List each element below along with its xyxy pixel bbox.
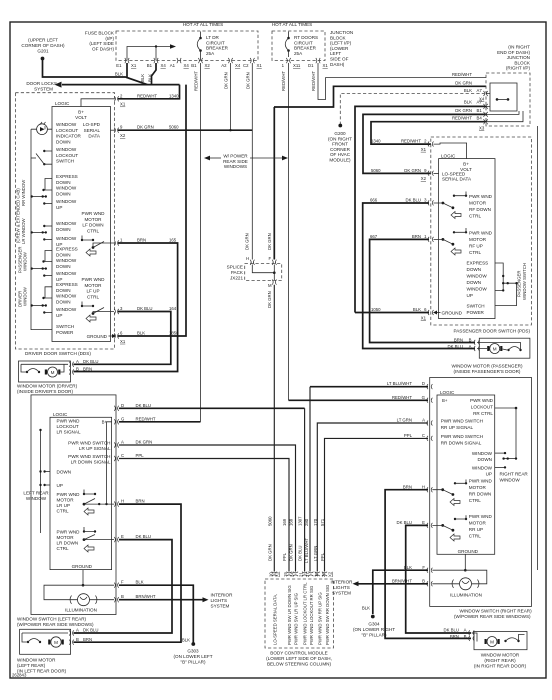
- svg-text:UP: UP: [56, 205, 62, 210]
- svg-text:RF DOWN: RF DOWN: [469, 207, 491, 212]
- svg-text:PWR WND: PWR WND: [82, 277, 106, 282]
- PDS pin 9 lo-speed serial data: [428, 171, 434, 176]
- svg-text:WINDOW SWITCH: WINDOW SWITCH: [522, 263, 527, 300]
- svg-text:M: M: [490, 640, 494, 645]
- svg-text:INTERIOR: INTERIOR: [211, 593, 234, 598]
- svg-text:SYSTEM: SYSTEM: [211, 604, 230, 609]
- svg-text:X2: X2: [421, 176, 427, 181]
- svg-text:WINDOW: WINDOW: [56, 294, 77, 299]
- arrow to door locks system: [55, 82, 62, 88]
- svg-text:RED/WHT: RED/WHT: [136, 416, 156, 421]
- window motor right rear box: [472, 632, 528, 650]
- svg-text:DK GRN: DK GRN: [267, 233, 272, 250]
- svg-text:F: F: [422, 565, 425, 570]
- svg-text:BRN: BRN: [403, 484, 412, 489]
- svg-text:WINDOW: WINDOW: [22, 251, 27, 271]
- svg-text:WINDOW: WINDOW: [56, 186, 77, 191]
- svg-text:RR DOWN SIGNAL: RR DOWN SIGNAL: [441, 440, 482, 445]
- svg-text:DASH): DASH): [330, 62, 345, 67]
- svg-text:LOGIC: LOGIC: [53, 412, 68, 417]
- svg-text:DOWN: DOWN: [467, 267, 482, 272]
- svg-text:B+: B+: [463, 162, 469, 167]
- svg-text:24: 24: [290, 572, 295, 577]
- svg-text:BRN: BRN: [83, 637, 92, 642]
- svg-text:PWR WND SW RR DOWN SIG: PWR WND SW RR DOWN SIG: [325, 584, 330, 645]
- svg-text:DOWN: DOWN: [56, 288, 71, 293]
- svg-text:A: A: [76, 628, 79, 633]
- wire BRN 667 to passenger motor: [370, 239, 475, 342]
- svg-text:D: D: [422, 381, 425, 386]
- svg-text:PWR WND: PWR WND: [469, 478, 493, 483]
- DDS pwr wnd motor lf down ctrl: [82, 211, 106, 233]
- svg-text:DOWN: DOWN: [56, 180, 71, 185]
- svg-text:F: F: [268, 256, 271, 261]
- svg-text:PASSENGER DOOR SWITCH (PDS): PASSENGER DOOR SWITCH (PDS): [454, 329, 531, 334]
- svg-text:DK GRN: DK GRN: [289, 544, 294, 561]
- svg-text:RED/WHT: RED/WHT: [281, 71, 286, 91]
- ground bus / door locks feed: [62, 84, 180, 86]
- svg-text:A: A: [76, 359, 79, 364]
- DDS RR window group: [56, 174, 78, 196]
- svg-text:WINDOW: WINDOW: [56, 271, 77, 276]
- svg-text:X1: X1: [120, 339, 126, 344]
- junction block left I/P label: [330, 30, 353, 67]
- svg-text:X4: X4: [161, 63, 167, 68]
- svg-text:X2: X2: [120, 133, 126, 138]
- svg-text:PWR WND: PWR WND: [57, 492, 81, 497]
- svg-text:JUNCTION: JUNCTION: [507, 55, 530, 60]
- wire DK GRN 5060 from pin 9: [118, 129, 252, 131]
- svg-text:DK GRN: DK GRN: [455, 81, 472, 86]
- svg-text:PWR WND: PWR WND: [469, 230, 493, 235]
- svg-text:CTRL: CTRL: [469, 213, 481, 218]
- svg-text:CTRL: CTRL: [469, 250, 481, 255]
- svg-text:C2: C2: [243, 63, 249, 68]
- svg-text:(LOWER LEFT SIDE OF DASH,: (LOWER LEFT SIDE OF DASH,: [266, 656, 332, 661]
- svg-text:WINDOW: WINDOW: [56, 199, 77, 204]
- svg-text:LO-SPEED: LO-SPEED: [442, 171, 466, 176]
- svg-text:DK BLU: DK BLU: [447, 344, 463, 349]
- svg-text:666: 666: [370, 198, 378, 203]
- svg-text:DOWN: DOWN: [56, 252, 71, 257]
- svg-text:X2: X2: [327, 571, 332, 577]
- LR motor up ctrl: [57, 492, 81, 514]
- svg-text:5060: 5060: [371, 168, 381, 173]
- svg-text:SWITCH: SWITCH: [56, 324, 74, 329]
- svg-text:BLK: BLK: [147, 74, 152, 82]
- svg-text:DK BLU: DK BLU: [443, 628, 459, 633]
- svg-text:X3: X3: [479, 126, 485, 131]
- svg-text:DK BLU: DK BLU: [298, 545, 303, 561]
- svg-text:BLK: BLK: [137, 331, 145, 336]
- svg-text:LT GRN: LT GRN: [397, 418, 412, 423]
- RR window down/up contacts: [472, 451, 493, 462]
- svg-text:HOT AT ALL TIMES: HOT AT ALL TIMES: [272, 22, 312, 27]
- svg-text:EXPRESS: EXPRESS: [467, 261, 489, 266]
- svg-text:BODY CONTROL MODULE: BODY CONTROL MODULE: [270, 651, 327, 656]
- svg-text:H: H: [422, 484, 425, 489]
- svg-text:DATA: DATA: [88, 134, 101, 139]
- LR switch pin B BRN/WHT: [114, 597, 118, 602]
- svg-text:X4: X4: [235, 63, 241, 68]
- wire RED/WHT from breaker pin 1 down right side: [288, 63, 290, 400]
- svg-text:X1: X1: [323, 63, 329, 68]
- svg-text:(LEFT REAR): (LEFT REAR): [17, 663, 46, 668]
- svg-text:RR UP: RR UP: [469, 527, 483, 532]
- LF down contact: [81, 239, 83, 241]
- svg-text:1307: 1307: [298, 516, 303, 526]
- svg-text:CTRL: CTRL: [469, 498, 481, 503]
- svg-text:WINDOW: WINDOW: [56, 147, 77, 152]
- DDS lo-spd serial data + pin 9: [83, 122, 101, 139]
- DDS driver window group: [56, 282, 78, 304]
- svg-text:BRN: BRN: [450, 634, 459, 639]
- svg-text:BLK: BLK: [115, 72, 123, 77]
- RR motor up ctrl: [469, 514, 493, 539]
- far right vertical wire: [537, 126, 539, 570]
- svg-text:POWER: POWER: [467, 310, 485, 315]
- fuse block I/P label: [85, 31, 115, 52]
- svg-text:WINDOW: WINDOW: [26, 496, 47, 501]
- DDS window lockout switch: [56, 147, 78, 164]
- svg-text:B: B: [121, 594, 124, 599]
- svg-text:X1: X1: [421, 315, 427, 320]
- svg-text:DK GRN: DK GRN: [267, 291, 272, 308]
- wire BLK dashed to G200: [340, 94, 484, 125]
- svg-text:"B" PILLAR): "B" PILLAR): [181, 660, 206, 665]
- svg-text:DK GRN: DK GRN: [224, 72, 229, 89]
- svg-text:RED/WHT: RED/WHT: [452, 116, 472, 121]
- svg-text:A2: A2: [221, 63, 227, 68]
- svg-text:ILLUMINATION: ILLUMINATION: [450, 592, 482, 597]
- svg-text:5060: 5060: [267, 516, 272, 526]
- svg-text:W/ POWER: W/ POWER: [223, 154, 248, 159]
- window switch right rear box: [430, 378, 532, 607]
- svg-text:M: M: [268, 283, 272, 288]
- RR motor down ctrl: [469, 478, 493, 503]
- svg-text:MOTOR: MOTOR: [57, 497, 75, 502]
- RR illumination: [432, 570, 486, 584]
- svg-text:1340: 1340: [169, 93, 179, 98]
- wire DK GRN splice M down to BCM: [273, 285, 275, 572]
- svg-text:M: M: [54, 640, 58, 645]
- svg-text:JUNCTION: JUNCTION: [330, 30, 353, 35]
- svg-text:BLK: BLK: [464, 88, 472, 93]
- svg-text:RT DOORS: RT DOORS: [294, 35, 318, 40]
- svg-text:BLK: BLK: [182, 638, 190, 643]
- svg-text:LR SIGNAL: LR SIGNAL: [57, 429, 81, 434]
- svg-text:D1: D1: [308, 63, 314, 68]
- svg-text:BRN/WHT: BRN/WHT: [136, 594, 156, 599]
- svg-text:SERIAL DATA: SERIAL DATA: [442, 177, 472, 182]
- PDS logic box: [439, 159, 495, 319]
- body control module BCM: [265, 579, 334, 648]
- svg-text:PWR WND: PWR WND: [470, 398, 494, 403]
- RR lockout text: [470, 398, 494, 416]
- svg-text:INDICATOR: INDICATOR: [56, 134, 82, 139]
- DDS text window lockout indicator: [56, 122, 82, 144]
- svg-text:A: A: [422, 418, 425, 423]
- svg-text:SPLICE: SPLICE: [227, 265, 243, 270]
- svg-text:25A: 25A: [206, 51, 215, 56]
- svg-text:168: 168: [289, 518, 294, 526]
- svg-text:DOWN: DOWN: [467, 280, 482, 285]
- svg-text:WINDOW: WINDOW: [56, 122, 77, 127]
- wire BLK from G201 to ground bus: [43, 59, 148, 85]
- svg-text:B: B: [76, 637, 79, 642]
- svg-text:MOTOR: MOTOR: [84, 283, 102, 288]
- svg-text:BRN: BRN: [412, 234, 421, 239]
- lockout switch contact: [43, 150, 45, 152]
- svg-text:CIRCUIT: CIRCUIT: [206, 40, 225, 45]
- svg-text:PPL: PPL: [136, 453, 145, 458]
- fuse block pins E1 B1 A1 X2 A2 C2: [125, 58, 255, 63]
- LF up contact: [81, 305, 83, 307]
- svg-text:26: 26: [321, 572, 326, 577]
- svg-text:CTRL: CTRL: [57, 546, 69, 551]
- svg-text:BLK: BLK: [362, 606, 370, 611]
- svg-text:MOTOR: MOTOR: [469, 237, 487, 242]
- svg-text:LOGIC: LOGIC: [55, 101, 70, 106]
- svg-text:DK GRN: DK GRN: [404, 168, 421, 173]
- svg-text:(ON LOWER RIGHT: (ON LOWER RIGHT: [353, 627, 395, 632]
- svg-text:BRN: BRN: [136, 499, 145, 504]
- svg-text:PWR WND SW RR UP SIG: PWR WND SW RR UP SIG: [318, 592, 323, 645]
- svg-text:E: E: [121, 534, 124, 539]
- svg-text:PWR WND SWITCH: PWR WND SWITCH: [68, 454, 110, 459]
- PDS pin 3: [428, 200, 434, 205]
- svg-text:CORNER: CORNER: [330, 147, 351, 152]
- svg-text:D: D: [121, 403, 124, 408]
- wire RED/WHT from D1 to top bus: [318, 63, 486, 100]
- svg-text:B1: B1: [191, 63, 197, 68]
- wire DK GRN from C2 down to splice H: [251, 63, 253, 260]
- RR switch pin D LT BLU/WHT: [427, 384, 433, 389]
- window motor passenger box: [477, 338, 530, 358]
- svg-text:(RIGHT REAR): (RIGHT REAR): [484, 658, 516, 663]
- fuse block internal bus: [127, 47, 170, 61]
- svg-text:262843: 262843: [12, 673, 27, 678]
- svg-text:PACK: PACK: [231, 270, 244, 275]
- svg-text:(LEFT SIDE: (LEFT SIDE: [89, 41, 114, 46]
- window motor driver box: [19, 361, 71, 382]
- svg-text:CORNER OF DASH): CORNER OF DASH): [21, 43, 65, 48]
- svg-text:(W/POWER REAR SIDE WINDOWS): (W/POWER REAR SIDE WINDOWS): [454, 614, 531, 619]
- svg-text:M: M: [493, 347, 497, 352]
- svg-text:PWR WND SW LR UP SIG: PWR WND SW LR UP SIG: [294, 592, 299, 645]
- svg-text:DK BLU: DK BLU: [396, 520, 412, 525]
- svg-text:CIRCUIT: CIRCUIT: [294, 40, 313, 45]
- svg-text:GROUND: GROUND: [87, 334, 108, 339]
- svg-text:WINDOW: WINDOW: [56, 307, 77, 312]
- svg-text:RED/WHT: RED/WHT: [392, 395, 412, 400]
- svg-text:PWR WND: PWR WND: [82, 211, 106, 216]
- BCM wire color labels rotated: [267, 537, 325, 563]
- svg-text:DRIVER DOOR SWITCH (DDS): DRIVER DOOR SWITCH (DDS): [25, 351, 91, 356]
- svg-text:LT DR: LT DR: [206, 35, 220, 40]
- DDS pin 2 X1: [114, 96, 118, 101]
- svg-text:WINDOW: WINDOW: [472, 451, 493, 456]
- svg-text:(ON LOWER LEFT: (ON LOWER LEFT: [173, 654, 212, 659]
- svg-text:MOTOR: MOTOR: [84, 217, 102, 222]
- svg-text:WINDOW MOTOR: WINDOW MOTOR: [17, 658, 56, 663]
- svg-text:(ON RIGHT: (ON RIGHT: [328, 136, 352, 141]
- wire BLK 1050 (riser drawn above): [355, 312, 429, 314]
- svg-text:A7: A7: [477, 88, 483, 93]
- svg-text:G200: G200: [334, 131, 346, 136]
- svg-text:BELOW STEERING COLUMN): BELOW STEERING COLUMN): [267, 662, 332, 667]
- svg-text:LR UP: LR UP: [57, 503, 71, 508]
- wire RED/WHT 1340 from bus to DDS pin 2: [118, 85, 180, 99]
- svg-text:RR WINDOW: RR WINDOW: [21, 179, 26, 206]
- svg-text:B+: B+: [442, 398, 448, 403]
- svg-text:X1: X1: [421, 147, 427, 152]
- wire BLK fuse pin E1 drop: [126, 63, 128, 78]
- svg-text:DK BLU: DK BLU: [405, 198, 421, 203]
- svg-text:A: A: [121, 440, 124, 445]
- svg-text:X4: X4: [479, 97, 485, 102]
- svg-text:DOWN: DOWN: [56, 227, 71, 232]
- passenger door switch PDS dashed box: [431, 137, 532, 325]
- svg-text:OF HVAC: OF HVAC: [330, 152, 351, 157]
- svg-text:B: B: [76, 367, 79, 372]
- svg-text:LIGHTS: LIGHTS: [211, 598, 228, 603]
- svg-text:LO-SPEED SERIAL DATA,: LO-SPEED SERIAL DATA,: [273, 594, 278, 645]
- svg-text:B: B: [464, 634, 467, 639]
- svg-text:LF DOWN: LF DOWN: [82, 223, 103, 228]
- DDS switch power: [56, 324, 74, 335]
- svg-text:LR DOWN SIGNAL: LR DOWN SIGNAL: [71, 460, 111, 465]
- svg-text:PWR WND LOCKOUT RR SIG: PWR WND LOCKOUT RR SIG: [309, 585, 314, 645]
- svg-text:X1: X1: [257, 63, 263, 68]
- svg-text:LOGIC: LOGIC: [440, 390, 455, 395]
- junction block right I/P: [479, 45, 531, 131]
- svg-text:PASSENGER: PASSENGER: [517, 271, 522, 297]
- svg-text:"B" PILLAR): "B" PILLAR): [362, 633, 387, 638]
- DDS LR window group: [56, 221, 77, 232]
- svg-text:PWR WND SWITCH: PWR WND SWITCH: [68, 441, 110, 446]
- svg-text:WINDOW MOTOR (DRIVER): WINDOW MOTOR (DRIVER): [17, 384, 78, 389]
- svg-text:WINDOW: WINDOW: [472, 466, 493, 471]
- svg-text:WINDOW: WINDOW: [500, 478, 521, 483]
- svg-text:A1: A1: [170, 63, 176, 68]
- RR switch pin C PPL: [427, 436, 433, 441]
- svg-text:H: H: [121, 499, 124, 504]
- LR switch pin A DK GRN: [68, 441, 111, 452]
- svg-text:VOLT: VOLT: [75, 115, 87, 120]
- svg-text:SWITCH: SWITCH: [56, 159, 74, 164]
- svg-text:169: 169: [282, 518, 287, 526]
- svg-text:X1: X1: [120, 102, 126, 107]
- svg-text:SERIAL: SERIAL: [84, 128, 101, 133]
- LR motor down ctrl: [57, 529, 81, 551]
- svg-text:DOWN: DOWN: [56, 299, 71, 304]
- svg-text:PPL: PPL: [404, 433, 413, 438]
- svg-text:BLK: BLK: [464, 100, 472, 105]
- svg-text:PWR WND: PWR WND: [57, 529, 81, 534]
- wire BLK 1850 riser: [118, 85, 186, 336]
- svg-text:RR DOWN: RR DOWN: [469, 491, 491, 496]
- RR switch pin H BRN: [427, 487, 433, 492]
- svg-text:X2: X2: [205, 63, 211, 68]
- svg-text:UP: UP: [467, 293, 473, 298]
- svg-text:(CREW & EXTENDED CAB): (CREW & EXTENDED CAB): [16, 188, 21, 243]
- wire BLK fuse pin B1 drop: [152, 63, 157, 85]
- svg-text:B: B: [422, 578, 425, 583]
- svg-text:LT BLU/WHT: LT BLU/WHT: [304, 537, 309, 563]
- DDS pwr wnd motor lf up ctrl: [82, 277, 106, 299]
- svg-text:G303: G303: [187, 649, 199, 654]
- splice pack JX221: [227, 256, 282, 288]
- svg-text:1050: 1050: [371, 307, 381, 312]
- BCM pin numbers rotated: [268, 571, 332, 577]
- wire BLK solid bus from PDS pin6 to junction block: [355, 106, 486, 312]
- svg-text:CTRL: CTRL: [87, 228, 99, 233]
- svg-text:RR UP SIGNAL: RR UP SIGNAL: [441, 425, 474, 430]
- svg-text:280: 280: [304, 518, 309, 526]
- svg-text:B1: B1: [477, 108, 483, 113]
- svg-text:GROUND: GROUND: [458, 549, 479, 554]
- svg-text:(I/P): (I/P): [105, 36, 114, 41]
- svg-text:WINDOWS: WINDOWS: [224, 164, 247, 169]
- svg-text:LOCKOUT: LOCKOUT: [56, 128, 78, 133]
- svg-text:RED/WHT: RED/WHT: [311, 71, 316, 91]
- svg-text:DOWN: DOWN: [57, 470, 72, 475]
- svg-text:EXPRESS: EXPRESS: [56, 174, 78, 179]
- svg-text:LEFT: LEFT: [330, 51, 341, 56]
- svg-text:SWITCH: SWITCH: [467, 304, 485, 309]
- svg-text:RR CTRL: RR CTRL: [473, 411, 493, 416]
- svg-text:PWR WND LOCKOUT LR CTRL: PWR WND LOCKOUT LR CTRL: [303, 582, 308, 645]
- BCM pins row: [272, 572, 328, 576]
- svg-text:RED/WHT: RED/WHT: [137, 93, 157, 98]
- svg-text:LOCKOUT: LOCKOUT: [471, 404, 493, 409]
- svg-text:CTRL: CTRL: [57, 508, 69, 513]
- ground G201: [21, 38, 65, 61]
- svg-text:DK BLU: DK BLU: [83, 359, 99, 364]
- svg-text:CTRL: CTRL: [87, 294, 99, 299]
- svg-text:WINDOW: WINDOW: [56, 221, 77, 226]
- svg-text:PWR WND SW LR DOWN SIG: PWR WND SW LR DOWN SIG: [287, 585, 292, 645]
- LR lockout signal text: [57, 418, 81, 434]
- svg-text:25A: 25A: [294, 51, 303, 56]
- svg-text:667: 667: [370, 234, 378, 239]
- motor driver pins A/B: [69, 362, 73, 375]
- svg-text:CTRL: CTRL: [469, 534, 481, 539]
- breaker 2 pins 1/X11 and D1/X1: [286, 58, 320, 63]
- svg-text:SYSTEM: SYSTEM: [332, 591, 351, 596]
- svg-text:A: A: [464, 628, 467, 633]
- svg-text:BREAKER: BREAKER: [206, 46, 229, 51]
- svg-text:GROUND: GROUND: [72, 564, 93, 569]
- wire DK BLU 666 to passenger motor: [363, 203, 475, 349]
- svg-text:MOTOR: MOTOR: [469, 200, 487, 205]
- svg-text:LEFT REAR: LEFT REAR: [23, 490, 49, 495]
- LR switch pin H BRN: [114, 502, 118, 507]
- svg-text:PWR WND SWITCH: PWR WND SWITCH: [441, 419, 483, 424]
- svg-text:B: B: [469, 338, 472, 343]
- svg-text:F: F: [121, 580, 124, 585]
- svg-text:18: 18: [314, 572, 319, 577]
- svg-text:DK GRN: DK GRN: [245, 72, 250, 89]
- LR switch pin E DK BLU: [114, 537, 118, 542]
- svg-text:INTERIOR: INTERIOR: [331, 580, 354, 585]
- svg-text:RF UP: RF UP: [469, 243, 483, 248]
- svg-text:DK BLU: DK BLU: [83, 628, 99, 633]
- svg-text:WINDOW SWITCH (RIGHT REAR): WINDOW SWITCH (RIGHT REAR): [460, 608, 533, 613]
- fuse block I/P dashed box: [116, 31, 258, 61]
- svg-text:(IN RIGHT REAR DOOR): (IN RIGHT REAR DOOR): [474, 664, 527, 669]
